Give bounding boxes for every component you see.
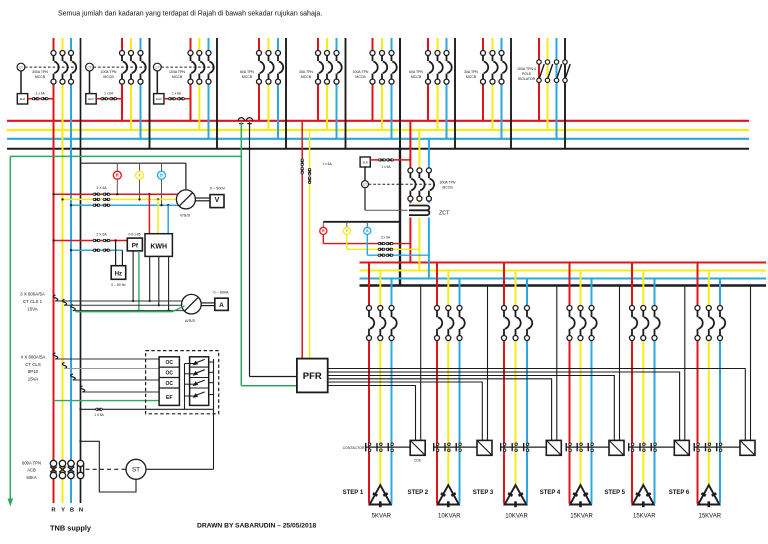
svg-text:Hz: Hz xyxy=(115,271,122,277)
svg-text:TNB supply: TNB supply xyxy=(50,523,92,532)
svg-text:COIL: COIL xyxy=(414,458,422,462)
svg-text:15KVAR: 15KVAR xyxy=(633,514,656,520)
svg-text:ELR: ELR xyxy=(20,97,25,101)
svg-text:MCCB: MCCB xyxy=(103,75,114,79)
svg-text:0 – 600A: 0 – 600A xyxy=(213,290,229,294)
svg-text:MCCB: MCCB xyxy=(411,75,422,79)
svg-text:300A TPN: 300A TPN xyxy=(32,70,48,74)
svg-text:1 x 6A: 1 x 6A xyxy=(322,162,332,166)
svg-text:B: B xyxy=(70,507,74,513)
svg-text:STEP 1: STEP 1 xyxy=(343,490,364,496)
svg-text:100A TPN 4: 100A TPN 4 xyxy=(517,67,536,71)
svg-text:15VA: 15VA xyxy=(28,376,38,381)
svg-text:1 x 6A: 1 x 6A xyxy=(381,165,391,169)
svg-text:A: A xyxy=(219,302,224,309)
svg-text:100A TPN: 100A TPN xyxy=(169,70,185,74)
svg-text:MCCB: MCCB xyxy=(172,75,183,79)
svg-text:ISOLATOR: ISOLATOR xyxy=(518,77,536,81)
svg-text:30A TPN: 30A TPN xyxy=(464,70,478,74)
svg-text:R: R xyxy=(322,229,325,233)
svg-text:1 X 6A: 1 X 6A xyxy=(94,413,104,417)
svg-text:15KVAR: 15KVAR xyxy=(699,514,722,520)
svg-text:1 x 6A: 1 x 6A xyxy=(104,91,114,95)
svg-text:MCCB: MCCB xyxy=(301,75,312,79)
svg-text:30A TPN: 30A TPN xyxy=(299,70,313,74)
svg-text:CT: CT xyxy=(363,182,367,186)
svg-text:ELR: ELR xyxy=(88,97,93,101)
svg-text:B: B xyxy=(366,229,369,233)
svg-text:B: B xyxy=(160,173,163,178)
svg-text:CT: CT xyxy=(88,65,92,69)
svg-text:KWH: KWH xyxy=(150,243,167,250)
svg-text:ELR: ELR xyxy=(156,97,161,101)
svg-text:Pf: Pf xyxy=(132,243,139,250)
svg-text:MCCB: MCCB xyxy=(442,186,453,190)
svg-text:100A TPN: 100A TPN xyxy=(353,70,369,74)
svg-text:MCCB: MCCB xyxy=(35,75,46,79)
svg-text:CT CLS: CT CLS xyxy=(25,362,41,367)
svg-text:Y: Y xyxy=(61,507,65,513)
svg-text:OC: OC xyxy=(165,370,173,376)
svg-text:MCCB: MCCB xyxy=(355,75,366,79)
svg-text:ST: ST xyxy=(132,467,140,474)
svg-text:EF: EF xyxy=(166,395,172,401)
svg-text:STEP 4: STEP 4 xyxy=(540,490,561,496)
svg-text:3 X 600A/5A: 3 X 600A/5A xyxy=(20,291,45,296)
svg-text:PFR: PFR xyxy=(303,371,322,382)
svg-text:600A TPN: 600A TPN xyxy=(22,460,41,465)
svg-text:MCCB: MCCB xyxy=(466,75,477,79)
svg-text:ACB: ACB xyxy=(27,468,36,473)
svg-text:100A TPN: 100A TPN xyxy=(101,70,117,74)
svg-text:Semua jumlah dan kadaran yang: Semua jumlah dan kadaran yang terdapat d… xyxy=(58,11,322,18)
svg-text:10KVAR: 10KVAR xyxy=(505,514,528,520)
svg-text:0-5-1-85: 0-5-1-85 xyxy=(128,232,140,236)
svg-text:300A TPN: 300A TPN xyxy=(440,181,456,185)
svg-text:CT CLS 1: CT CLS 1 xyxy=(23,299,43,304)
svg-text:STEP 5: STEP 5 xyxy=(604,490,625,496)
svg-text:5P10: 5P10 xyxy=(28,369,39,374)
svg-text:60A TPN: 60A TPN xyxy=(240,70,254,74)
svg-text:CONTACTOR: CONTACTOR xyxy=(343,446,365,450)
svg-text:STEP 2: STEP 2 xyxy=(408,490,429,496)
svg-text:ELR: ELR xyxy=(363,161,368,165)
svg-text:DRAWN BY SABARUDIN – 25/05/201: DRAWN BY SABARUDIN – 25/05/2018 xyxy=(197,523,316,530)
svg-text:V: V xyxy=(215,197,220,204)
svg-text:Y: Y xyxy=(138,173,141,178)
svg-text:3 x 6A: 3 x 6A xyxy=(381,236,391,240)
svg-text:A/S/S: A/S/S xyxy=(185,318,196,323)
svg-text:CT: CT xyxy=(19,65,23,69)
svg-text:STEP 6: STEP 6 xyxy=(669,490,690,496)
svg-text:10KVAR: 10KVAR xyxy=(438,514,461,520)
svg-text:V/S/S: V/S/S xyxy=(180,212,191,217)
svg-text:2 X 6A: 2 X 6A xyxy=(96,232,107,236)
svg-text:60A TPN: 60A TPN xyxy=(409,70,423,74)
svg-text:R: R xyxy=(116,173,119,178)
svg-text:50KA: 50KA xyxy=(26,475,36,480)
svg-text:MCCB: MCCB xyxy=(242,75,253,79)
svg-text:STEP 3: STEP 3 xyxy=(473,490,494,496)
svg-text:0 – 50 Hz: 0 – 50 Hz xyxy=(111,283,126,287)
svg-text:15KVAR: 15KVAR xyxy=(570,514,593,520)
svg-text:POLE: POLE xyxy=(522,72,532,76)
svg-text:0 – 500V: 0 – 500V xyxy=(210,186,226,190)
svg-text:4 X 600A/5A: 4 X 600A/5A xyxy=(21,355,46,360)
svg-text:1 x 6A: 1 x 6A xyxy=(172,91,182,95)
svg-text:1 x 6A: 1 x 6A xyxy=(36,91,46,95)
svg-text:N: N xyxy=(79,507,83,513)
svg-text:15VA: 15VA xyxy=(27,306,37,311)
svg-text:3 X 6A: 3 X 6A xyxy=(96,186,107,190)
svg-text:ZCT: ZCT xyxy=(439,210,450,216)
svg-text:CT: CT xyxy=(155,65,159,69)
svg-text:OC: OC xyxy=(165,381,173,387)
svg-text:5KVAR: 5KVAR xyxy=(372,514,392,520)
svg-text:OC: OC xyxy=(165,360,173,366)
